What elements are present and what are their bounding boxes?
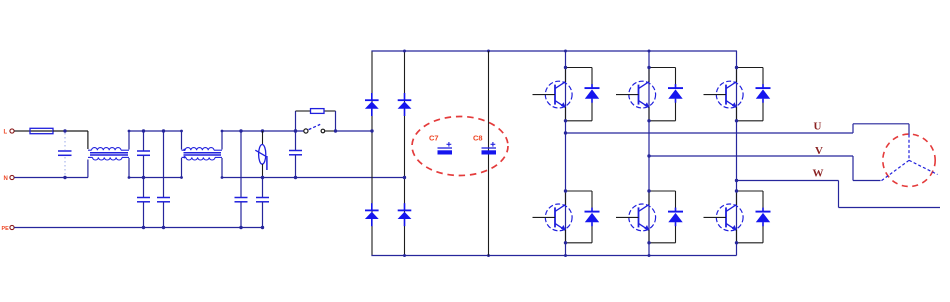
- common-mode choke T1: [88, 148, 129, 160]
- node MOV top junction: [261, 129, 264, 132]
- label V: [815, 145, 823, 157]
- wire top rail T1 to T2: [129, 130, 182, 132]
- node N-Cx1 junction: [63, 176, 66, 179]
- motor winding spoke right: [909, 160, 938, 174]
- wire Q5 collector branch: [649, 191, 676, 243]
- label U: [814, 121, 822, 133]
- node phase V tap: [647, 154, 650, 157]
- diode D7: [756, 84, 771, 103]
- wire phase W line: [737, 180, 839, 182]
- wire N terminal to choke T1: [14, 160, 88, 178]
- wire Q6 collector branch: [737, 191, 764, 243]
- capacitor CX1: [58, 133, 72, 176]
- capacitor CY1 N to PE: [137, 178, 150, 228]
- wire bottom rail T1 to T2: [129, 177, 182, 179]
- node bridge leg2 AC junction: [403, 176, 406, 179]
- common-mode choke T2: [182, 148, 223, 160]
- wire phase V line: [649, 155, 853, 157]
- node Q1 collector junction: [564, 66, 567, 69]
- node CY2 PE junction: [162, 226, 165, 229]
- node bypass left junction: [294, 129, 297, 132]
- terminal PE: [2, 225, 15, 232]
- node phase U tap: [564, 131, 567, 134]
- wire choke T2 right leads: [221, 130, 224, 179]
- diode D3: [398, 93, 412, 116]
- wire V feed to motor: [853, 156, 881, 181]
- diode D8: [585, 208, 600, 227]
- wire Q2 collector branch: [649, 68, 676, 121]
- diode D2: [365, 203, 379, 226]
- terminal L: [4, 129, 15, 136]
- wire switch to bridge: [325, 130, 372, 132]
- wire inverter leg 3 vertical: [736, 51, 738, 256]
- wire Q3 collector branch: [737, 68, 764, 121]
- diode D6: [668, 84, 683, 103]
- node bottom bus leg Q2: [648, 254, 651, 257]
- wire C8 bus vertical: [488, 51, 490, 256]
- node bottom bus C8 leg: [487, 254, 490, 257]
- svg-text:L: L: [4, 130, 8, 136]
- transistor Q6: [704, 191, 744, 243]
- resistor R1: [311, 109, 325, 114]
- wire Q1 collector branch: [566, 68, 593, 121]
- svg-text:N: N: [4, 176, 8, 182]
- svg-text:C8: C8: [473, 134, 483, 143]
- wire soft-start bypass loop: [296, 111, 336, 131]
- wire bridge leg1 vertical: [371, 51, 373, 256]
- capacitor CX2: [137, 131, 150, 178]
- node Q2 collector junction: [647, 66, 650, 69]
- svg-text:PE: PE: [2, 226, 10, 232]
- transistor Q2: [616, 68, 656, 121]
- node CY1 PE junction: [142, 226, 145, 229]
- node CY3 top junction: [239, 129, 242, 132]
- wire DC+ top bus: [371, 50, 737, 52]
- label W: [813, 168, 824, 180]
- capacitor C8: [482, 142, 497, 155]
- diode D1: [365, 93, 379, 116]
- node Q3 emitter junction: [735, 119, 738, 122]
- svg-text:V: V: [815, 145, 823, 157]
- terminal N: [4, 175, 15, 182]
- capacitor CX3: [289, 131, 302, 178]
- motor winding spoke top: [908, 135, 910, 161]
- diode D10: [756, 208, 771, 227]
- node MOV bottom junction: [261, 176, 264, 179]
- node CY2 top junction: [162, 129, 165, 132]
- switch S1: [304, 124, 325, 133]
- node Q1 emitter junction: [564, 119, 567, 122]
- wire top rail T2 to bridge: [222, 130, 304, 132]
- node bottom bus leg2: [403, 254, 406, 257]
- wire inverter leg 1 vertical: [565, 51, 567, 256]
- wire U feed to motor: [853, 124, 909, 135]
- transistor Q4: [533, 191, 573, 243]
- diode D9: [668, 208, 683, 227]
- capacitor CY2 L to PE: [157, 131, 170, 228]
- node Q6 emitter junction: [735, 241, 738, 244]
- diode D4: [398, 203, 412, 226]
- node phase W tap: [735, 179, 738, 182]
- capacitor C7 label: [429, 134, 439, 143]
- wire DC- bottom bus: [371, 255, 736, 257]
- node CX3 bottom junction: [294, 176, 297, 179]
- wire bottom rail T2 to bridge: [222, 177, 405, 179]
- wire bridge leg2 vertical: [404, 51, 406, 256]
- capacitor C8 label: [473, 134, 483, 143]
- node Q6 collector junction: [735, 189, 738, 192]
- wire L terminal to fuse: [14, 130, 30, 132]
- node Q3 collector junction: [735, 66, 738, 69]
- wire inverter leg 2 vertical: [648, 51, 650, 256]
- svg-text:C7: C7: [429, 134, 439, 143]
- node CX3 top junction: [294, 129, 297, 132]
- node Q2 emitter junction: [647, 119, 650, 122]
- node Q4 emitter junction: [564, 241, 567, 244]
- wire W feed line: [839, 181, 941, 208]
- wire phase U line: [566, 132, 854, 134]
- node CY4 PE corner: [261, 226, 264, 229]
- svg-text:U: U: [814, 121, 822, 133]
- fuse F1: [30, 128, 53, 133]
- node top bus leg Q1: [564, 50, 567, 53]
- motor M circle: [883, 134, 935, 186]
- node CX2 top junction: [142, 129, 145, 132]
- wire fuse to choke T1: [53, 131, 88, 149]
- node L-Cx1 junction: [63, 129, 66, 132]
- varistor RV1: [255, 131, 267, 178]
- svg-text:W: W: [813, 168, 824, 180]
- node CY3 PE junction: [239, 226, 242, 229]
- diode D5: [585, 84, 600, 103]
- motor winding spoke left: [881, 160, 909, 181]
- wire choke T1 right leads: [128, 130, 131, 179]
- capacitor C7: [438, 142, 453, 155]
- transistor Q1: [533, 68, 573, 121]
- node top bus leg Q2: [648, 50, 651, 53]
- node bridge leg1 AC junction: [370, 129, 373, 132]
- node Q5 emitter junction: [647, 241, 650, 244]
- capacitor CY3 L to PE: [235, 131, 248, 228]
- node top bus leg2: [403, 50, 406, 53]
- node bottom bus leg Q1: [564, 254, 567, 257]
- node Q5 collector junction: [647, 189, 650, 192]
- node top bus C8 leg: [487, 50, 490, 53]
- capacitor CY4 N to PE: [256, 178, 269, 228]
- node CX2 bottom junction: [142, 176, 145, 179]
- wire PE line: [14, 227, 262, 229]
- node Q4 collector junction: [564, 189, 567, 192]
- wire Q4 collector branch: [566, 191, 593, 243]
- wire choke T2 left leads: [180, 130, 183, 179]
- node bypass right junction: [334, 129, 337, 132]
- red dashed ellipse around DC caps: [412, 117, 508, 176]
- transistor Q3: [704, 68, 744, 121]
- transistor Q5: [616, 191, 656, 243]
